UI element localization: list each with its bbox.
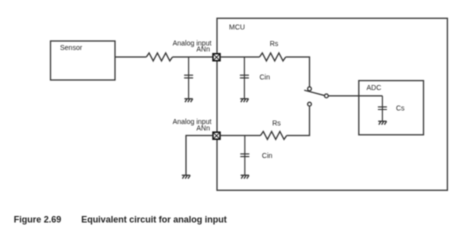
capacitor external (unlabeled) (184, 57, 193, 99)
svg-text:ANn: ANn (196, 47, 210, 54)
resistor Rs bottom (261, 132, 287, 140)
capacitor Cin bottom (240, 136, 249, 176)
svg-text:Rs: Rs (270, 41, 279, 48)
svg-text:Figure 2.69: Figure 2.69 (14, 215, 62, 225)
switch blade (304, 90, 324, 95)
resistor external (unlabeled) (146, 53, 172, 61)
pin ANn bottom (crossed square) (213, 132, 220, 139)
sensor box (51, 41, 116, 80)
wire pin to Rs top (220, 56, 260, 58)
pin ANn top (crossed square) (213, 54, 220, 61)
svg-text:Cin: Cin (260, 75, 271, 82)
capacitor Cs (378, 96, 387, 121)
ADC box (359, 81, 424, 135)
MCU box (217, 18, 447, 190)
wire Rs bottom to switch (287, 106, 310, 136)
wire sensor to external resistor (115, 56, 146, 58)
switch contact bottom (circle) (308, 102, 312, 106)
svg-text:Cin: Cin (262, 153, 273, 160)
svg-text:Cs: Cs (396, 106, 405, 113)
switch pole (circle) (325, 94, 329, 98)
ground (left of pin bottom) (182, 175, 190, 178)
wire resistor to pin ANn top (173, 56, 213, 58)
svg-text:Rs: Rs (272, 121, 281, 128)
svg-text:ADC: ADC (367, 85, 382, 92)
ground (external capacitor) (184, 99, 192, 102)
svg-text:Equivalent circuit for analog: Equivalent circuit for analog input (81, 215, 227, 225)
capacitor Cin top (240, 57, 249, 99)
svg-text:ANn: ANn (196, 126, 210, 133)
ground (Cin bottom) (241, 175, 249, 178)
resistor Rs top (260, 53, 286, 61)
wire pin bottom to left ground (186, 136, 213, 176)
wire pin bottom to Rs bottom (220, 135, 261, 137)
svg-text:Sensor: Sensor (60, 45, 83, 52)
ground (Cin top) (240, 99, 248, 102)
svg-text:MCU: MCU (229, 25, 245, 32)
wire switch pole to ADC / Cs (328, 95, 382, 97)
wire Rs top to switch (286, 57, 310, 87)
ground (Cs) (378, 121, 386, 124)
switch contact top (circle) (308, 87, 312, 91)
